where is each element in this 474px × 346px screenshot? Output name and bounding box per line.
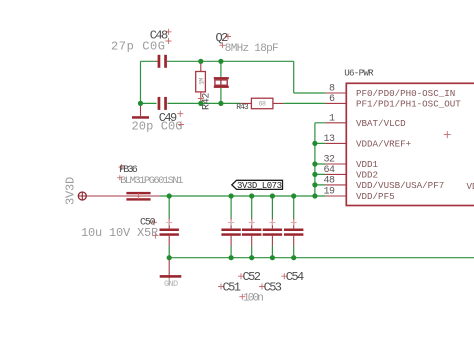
svg-text:13: 13 (323, 134, 335, 145)
svg-text:27p C0G: 27p C0G (111, 40, 166, 54)
svg-text:U6-PWR: U6-PWR (344, 68, 374, 79)
svg-text:48: 48 (323, 176, 335, 187)
svg-text:R42: R42 (202, 93, 213, 110)
svg-text:VDD/PF5: VDD/PF5 (356, 191, 395, 202)
svg-text:C53: C53 (264, 280, 282, 294)
svg-text:C52: C52 (243, 270, 261, 284)
svg-text:VD: VD (467, 181, 474, 192)
svg-text:8MHz 18pF: 8MHz 18pF (225, 43, 278, 55)
svg-text:10u 10V X5R: 10u 10V X5R (81, 226, 158, 240)
svg-text:GND: GND (164, 279, 178, 289)
svg-text:C54: C54 (286, 270, 304, 284)
svg-text:68: 68 (259, 101, 266, 108)
svg-text:19: 19 (323, 187, 335, 198)
svg-text:VDDA/VREF+: VDDA/VREF+ (356, 138, 411, 149)
svg-text:3V3D: 3V3D (64, 177, 78, 205)
svg-text:VDD2: VDD2 (356, 169, 378, 180)
svg-text:6: 6 (329, 94, 335, 105)
svg-text:PF0/PD0/PH0-OSC_IN: PF0/PD0/PH0-OSC_IN (356, 88, 455, 99)
svg-text:64: 64 (323, 165, 335, 176)
svg-text:1M: 1M (198, 78, 205, 85)
svg-text:PF1/PD1/PH1-OSC_OUT: PF1/PD1/PH1-OSC_OUT (356, 98, 461, 109)
svg-text:8: 8 (329, 84, 335, 95)
svg-text:20p C0G: 20p C0G (132, 119, 183, 133)
svg-text:32: 32 (323, 155, 335, 166)
svg-text:C51: C51 (223, 280, 241, 294)
svg-text:3V3D_L073: 3V3D_L073 (237, 181, 282, 191)
svg-text:VBAT/VLCD: VBAT/VLCD (356, 118, 406, 129)
svg-text:100n: 100n (243, 293, 263, 305)
svg-text:VDD1: VDD1 (356, 159, 379, 170)
svg-text:1: 1 (329, 113, 335, 124)
svg-text:BLM31PG601SN1: BLM31PG601SN1 (120, 175, 183, 187)
svg-text:VDD/VUSB/USA/PF7: VDD/VUSB/USA/PF7 (356, 180, 444, 191)
svg-text:R43: R43 (236, 103, 249, 112)
